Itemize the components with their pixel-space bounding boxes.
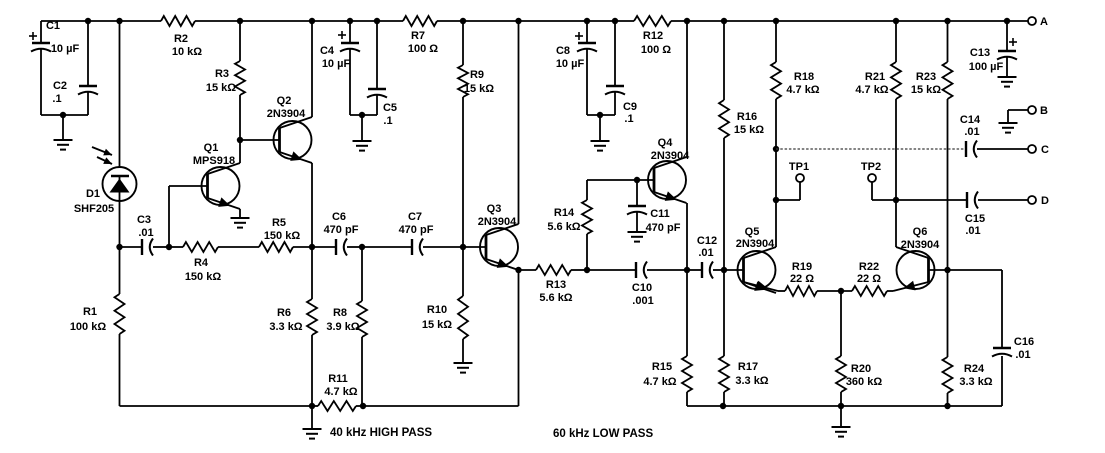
svg-text:R15: R15 [652,361,672,373]
wire Q2 emitter drop [311,163,313,247]
resistor R22 [852,261,893,296]
node R18/C14 tap [773,146,779,152]
terminal A [1028,16,1048,28]
svg-text:R11: R11 [328,373,348,385]
svg-text:Q5: Q5 [745,226,760,238]
svg-text:22 Ω: 22 Ω [857,273,881,285]
transistor Q4 [648,137,690,203]
svg-text:R10: R10 [427,304,447,316]
svg-text:2N3904: 2N3904 [651,150,690,162]
svg-text:A: A [1040,16,1048,28]
svg-text:40 kHz HIGH PASS: 40 kHz HIGH PASS [330,427,432,439]
svg-text:B: B [1040,105,1048,117]
capacitor C6 [312,211,362,256]
svg-text:4.7 kΩ: 4.7 kΩ [324,386,357,398]
svg-text:Q4: Q4 [658,137,674,149]
svg-text:D: D [1041,195,1049,207]
svg-text:3.3 kΩ: 3.3 kΩ [959,376,992,388]
svg-text:.001: .001 [632,295,653,307]
light arrows into D1 [92,147,112,164]
svg-text:100 Ω: 100 Ω [408,43,438,55]
capacitor C11 [627,180,681,234]
svg-text:C11: C11 [650,208,670,220]
svg-text:5.6 kΩ: 5.6 kΩ [547,221,580,233]
ground below C4/C5 [353,115,372,151]
svg-text:.01: .01 [138,227,153,239]
svg-text:C8: C8 [556,45,570,57]
svg-text:.01: .01 [965,225,980,237]
svg-text:470 pF: 470 pF [646,222,681,234]
wire Q3 collector riser [515,18,521,224]
label 40 kHz HIGH PASS [330,427,432,439]
svg-text:C12: C12 [697,235,717,247]
ground below R10 [454,339,473,373]
wire Q2 collector riser [309,18,315,117]
svg-text:3.3 kΩ: 3.3 kΩ [269,321,302,333]
svg-text:3.9 kΩ: 3.9 kΩ [326,321,359,333]
svg-text:.01: .01 [698,247,713,259]
resistor R9 [458,18,494,247]
wire bottom rail right [687,403,1002,409]
svg-text:22 Ω: 22 Ω [790,273,814,285]
resistor R21 [855,18,901,247]
q5 emitter [744,281,779,291]
svg-text:15 kΩ: 15 kΩ [464,83,494,95]
node TP1 tap [773,197,779,203]
resistor R6 [269,247,317,406]
svg-text:Q2: Q2 [277,95,292,107]
resistor R3 [206,18,245,140]
svg-text:C: C [1041,144,1049,156]
svg-text:100 Ω: 100 Ω [641,44,671,56]
wire Q4 collector riser [684,18,690,157]
svg-text:R22: R22 [859,261,879,273]
svg-text:.1: .1 [52,93,61,105]
ground below Q1 [231,218,250,228]
svg-text:R16: R16 [737,111,757,123]
svg-text:TP1: TP1 [789,161,809,173]
capacitor C13 [969,18,1017,77]
node C12/R16/R17/Q5-base [721,267,727,273]
svg-text:R14: R14 [554,207,575,219]
svg-text:2N3904: 2N3904 [736,238,775,250]
resistor R13 [519,265,588,304]
svg-text:100 µF: 100 µF [969,61,1004,73]
wire C4-C5 bottom [350,112,377,118]
wire Q1 base riser [169,186,208,247]
wire Q5 base [724,269,744,271]
wire top rail segment 2 [195,20,403,22]
resistor R8 [326,247,367,406]
svg-text:R17: R17 [738,361,758,373]
transistor Q5 [736,226,776,293]
node Q1-collector/R3/Q2-base [237,137,243,143]
svg-text:C5: C5 [383,102,397,114]
svg-text:15 kΩ: 15 kΩ [911,84,941,96]
capacitor C2 [52,18,98,115]
node Q4-base/C11 [634,177,640,183]
svg-text:10 kΩ: 10 kΩ [172,46,202,58]
wire top rail segment 1 [41,20,161,22]
svg-text:C9: C9 [623,101,637,113]
svg-text:R8: R8 [333,307,347,319]
wire bottom rail left [120,403,316,409]
svg-text:.01: .01 [964,126,979,138]
svg-text:D1: D1 [86,188,100,200]
transistor Q2 [267,95,312,163]
wire Q4 emitter drop [686,203,688,270]
ground bottom-left [303,406,322,439]
ground below C8/C9 [591,115,610,151]
svg-text:.1: .1 [624,113,633,125]
capacitor C8 [556,18,597,115]
svg-text:R4: R4 [194,257,209,269]
transistor Q6 [893,226,940,291]
svg-text:R18: R18 [794,71,814,83]
svg-text:15 kΩ: 15 kΩ [734,124,764,136]
svg-text:Q1: Q1 [204,142,219,154]
wire bottom rail left 2 [363,405,519,407]
svg-text:R2: R2 [174,33,188,45]
svg-text:R5: R5 [272,217,286,229]
svg-text:10 µF: 10 µF [556,58,585,70]
resistor R20 [836,291,882,406]
resistor R2 [161,16,202,58]
svg-text:10 µF: 10 µF [51,43,80,55]
capacitor C9 [605,18,637,125]
node C7/R9/R10/Q3-base [460,244,466,250]
wire Q1 collector [239,140,241,163]
svg-text:R12: R12 [643,30,663,42]
test point TP1 [776,161,809,200]
resistor R1 [70,244,125,406]
svg-text:Q3: Q3 [487,203,502,215]
svg-text:R19: R19 [792,261,812,273]
ground below C11 [628,232,647,242]
svg-text:C10: C10 [632,282,652,294]
svg-text:MPS918: MPS918 [193,155,235,167]
svg-text:R6: R6 [277,307,291,319]
svg-text:C14: C14 [960,114,981,126]
capacitor C5 [367,18,397,127]
svg-text:C1: C1 [46,20,60,32]
svg-text:360 kΩ: 360 kΩ [846,376,883,388]
terminal D [1028,195,1049,207]
svg-text:C2: C2 [53,80,67,92]
svg-text:R13: R13 [546,279,566,291]
svg-text:C3: C3 [137,214,151,226]
terminal C [1028,144,1049,156]
node C6/C7/R8 [359,244,365,250]
wire top rail segment 4 [671,20,1028,22]
svg-text:5.6 kΩ: 5.6 kΩ [539,292,572,304]
capacitor C16 [992,336,1034,406]
svg-text:Q6: Q6 [913,226,928,238]
svg-text:C4: C4 [320,45,335,57]
svg-text:470 pF: 470 pF [399,224,434,236]
resistor R7 [403,16,438,55]
node R13/R14/C10 [584,267,590,273]
ground at B [999,123,1018,133]
wire C1-C2 bottom [41,112,88,118]
transistor Q3 [478,203,519,270]
transistor Q1 [193,142,240,209]
svg-text:R20: R20 [851,363,871,375]
node Q6-base/R23/R24/C16 [944,267,950,273]
svg-text:10 µF: 10 µF [322,58,351,70]
ground below C13 [998,77,1017,87]
svg-text:R1: R1 [83,306,97,318]
node TP2 tap [893,197,899,203]
resistor R14 [547,180,592,270]
svg-text:2N3904: 2N3904 [478,216,517,228]
node C10/C12/Q4-emitter/R15 [684,267,690,273]
svg-text:TP2: TP2 [861,161,881,173]
wire Q3 emitter drop [518,270,520,406]
resistor R18 [771,18,820,247]
resistor R24 [943,270,993,406]
capacitor C14 [960,114,1028,158]
wire Q3 base [463,246,486,248]
wire C15 row [896,199,967,201]
capacitor C10 [587,262,687,308]
wire Q2 base [240,139,280,141]
capacitor C7 [362,211,463,256]
label 60 kHz LOW PASS [553,428,653,440]
node R5/Q2/C6/R6 [309,244,315,250]
svg-text:100 kΩ: 100 kΩ [70,321,107,333]
resistor R5 [259,217,312,252]
resistor R10 [422,247,468,339]
node R19/R22/R20 [838,288,844,294]
svg-text:C13: C13 [970,47,990,59]
capacitor C12 [687,235,724,279]
svg-text:470 pF: 470 pF [324,224,359,236]
resistor R23 [911,18,953,270]
capacitor C1 [29,20,79,115]
svg-text:SHF205: SHF205 [74,203,114,215]
resistor R19 [778,261,852,296]
svg-text:.01: .01 [1015,349,1030,361]
capacitor C4 [320,18,360,115]
resistor R4 [169,242,259,283]
svg-text:R21: R21 [865,71,885,83]
svg-text:R7: R7 [411,30,425,42]
svg-text:15 kΩ: 15 kΩ [206,82,236,94]
svg-text:2N3904: 2N3904 [267,108,306,120]
svg-text:R24: R24 [964,363,985,375]
svg-text:4.7 kΩ: 4.7 kΩ [855,84,888,96]
test point TP2 [861,161,896,200]
resistor R15 [643,270,692,406]
node C3/R4/Q1-base [166,244,172,250]
svg-text:R23: R23 [916,71,936,83]
wire Q4 base [587,179,654,181]
resistor R12 [634,16,671,56]
svg-text:3.3 kΩ: 3.3 kΩ [735,375,768,387]
svg-text:4.7 kΩ: 4.7 kΩ [786,84,819,96]
svg-text:C15: C15 [965,213,985,225]
svg-text:150 kΩ: 150 kΩ [185,271,222,283]
svg-text:15 kΩ: 15 kΩ [422,319,452,331]
svg-text:C6: C6 [332,211,346,223]
svg-text:2N3904: 2N3904 [901,239,940,251]
wire Q1 emitter [239,209,241,218]
wire C8-C9 bottom [587,112,615,118]
svg-text:150 kΩ: 150 kΩ [264,230,301,242]
photodiode D1 [74,18,137,247]
svg-text:C7: C7 [408,211,422,223]
ground bottom-right [832,406,851,437]
node R11/R8-bottom [360,403,366,409]
terminal B [1008,105,1048,123]
ground below C1/C2 [54,115,73,150]
resistor R11 [312,373,363,411]
wire Q6 base [929,269,948,271]
wire top rail segment 3 [437,20,634,22]
svg-text:60 kHz LOW PASS: 60 kHz LOW PASS [553,428,653,440]
capacitor C3 [120,214,170,256]
resistor R17 [719,270,769,406]
svg-text:4.7 kΩ: 4.7 kΩ [643,376,676,388]
svg-text:R9: R9 [470,69,484,81]
svg-text:C16: C16 [1014,336,1034,348]
resistor R16 [719,18,764,270]
wire C14 row [776,148,966,150]
capacitor C15 [965,192,1028,238]
node R20 ground [838,403,844,409]
wire C16 branch [948,270,1003,348]
node Q3 emitter [515,267,521,273]
svg-text:R3: R3 [215,68,229,80]
svg-text:.1: .1 [383,115,392,127]
